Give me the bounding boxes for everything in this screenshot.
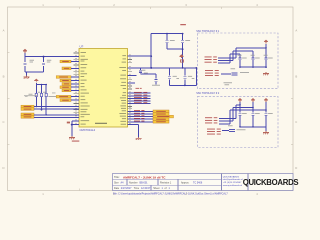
svg-text:Date: Date [114, 187, 120, 190]
svg-text:Time: Time [134, 187, 140, 190]
wires top-right cluster [128, 34, 197, 86]
power VDD symbol region 1 [264, 40, 268, 44]
sheet border frame with zone ticks [8, 7, 294, 191]
wire region 2 bottom rail [240, 126, 266, 128]
svg-text:QUICKBOARDS: QUICKBOARDS [223, 175, 240, 178]
net port red square [180, 60, 183, 62]
capacitor C? region 2 lower [229, 130, 235, 132]
svg-text:D: D [2, 166, 4, 170]
resistor R? pull-ups [35, 93, 47, 96]
capacitors region 2 trio [239, 113, 273, 127]
svg-text:AMRFCAL7 - JLINK 19 dil TC: AMRFCAL7 - JLINK 19 dil TC [123, 175, 166, 179]
svg-text:C: C [295, 120, 297, 124]
svg-text:A: A [3, 29, 5, 33]
svg-text:12:34:07: 12:34:07 [141, 187, 151, 190]
capacitor C? value text right [47, 59, 52, 62]
svg-text:SSC TOPOLOGY # 1: SSC TOPOLOGY # 1 [196, 30, 220, 33]
wire region 1 bottom rail [240, 66, 266, 68]
red net labels region 1 lower [205, 70, 231, 76]
wire pull-up verticals [36, 85, 46, 115]
IC U? bottom center gnd text [95, 122, 107, 125]
junction dot top rail capE [182, 33, 184, 35]
junction dot wire B at vertical 2 [182, 67, 184, 69]
junction dots region 2 [239, 104, 241, 106]
svg-text:CMX7041L4: CMX7041L4 [80, 128, 96, 132]
capacitor C? branch right [183, 77, 186, 79]
capacitor C? decoupling left [23, 63, 26, 65]
ground symbol bottom-left [69, 136, 75, 139]
capacitor C? mid cluster [155, 80, 158, 82]
sheet zone numbers and letters [2, 3, 297, 196]
junction dot wire B at vertical 1 [150, 67, 152, 69]
red net labels region 2 lower [207, 129, 229, 135]
IC U? internal pin name text [81, 52, 127, 125]
svg-text:Approx.: Approx. [181, 182, 190, 185]
power VDD symbol right of IC [179, 54, 183, 58]
junction dots pull-up rail [41, 84, 43, 86]
IC U? pin numbers [75, 51, 131, 124]
port label boxes far-left [21, 105, 34, 118]
red net labels region 2 [205, 117, 217, 123]
dashed box region 2 [198, 96, 279, 147]
svg-text:info@quickboards.nl: info@quickboards.nl [223, 178, 243, 181]
capacitor C? below wire B [139, 71, 142, 73]
svg-text:U?: U? [80, 45, 84, 49]
junction dot wire A vertical [150, 55, 152, 57]
net label Vdd red text top [180, 24, 186, 25]
designator text above ports [24, 94, 37, 97]
svg-text:A: A [295, 29, 297, 33]
svg-text:BB-001: BB-001 [140, 182, 149, 185]
svg-text:Revision 1: Revision 1 [160, 182, 172, 185]
junction dots region 1 [239, 66, 241, 68]
svg-text:C: C [2, 120, 4, 124]
red net labels region 1 [205, 57, 217, 63]
wires region 1 nested rails [218, 48, 266, 63]
title block frame [113, 174, 294, 191]
small blue text left of box [52, 92, 56, 95]
red net labels right of IC [128, 88, 151, 104]
capacitor C? above IC b [181, 41, 184, 43]
svg-text:TC 5406: TC 5406 [193, 182, 203, 185]
junction dot wire B end [195, 67, 197, 69]
junction dots pull-up to lines [36, 106, 38, 108]
IC U? pin stubs [74, 53, 133, 125]
capacitor C? above IC a [166, 41, 169, 43]
capacitor C? region 1 lower [232, 73, 238, 75]
capacitor C? decoupling right [42, 63, 45, 65]
wires region 2 nested rails [219, 105, 266, 124]
capacitors region 1 trio [238, 55, 273, 67]
svg-text:B: B [3, 74, 5, 78]
capacitor texts region 1 lower [231, 67, 236, 70]
svg-text:2/17/2017: 2/17/2017 [121, 187, 132, 190]
power VDD symbols region 2 [238, 98, 268, 113]
dashed box region 1 [198, 33, 279, 89]
ground net label text [72, 140, 80, 143]
wire port lines to IC [34, 107, 79, 118]
net label boxes left column [56, 60, 79, 101]
junction dot bottom-left [71, 124, 73, 126]
svg-text:File: C:\Users\quickboards\Pro: File: C:\Users\quickboards\Projects\AMRF… [113, 192, 228, 195]
svg-text:www.quickboards.nl: www.quickboards.nl [223, 184, 243, 187]
svg-text:B: B [295, 74, 297, 78]
ground symbol below decoupling pair [26, 72, 28, 75]
capacitor C? branch left [168, 77, 171, 79]
junction dot on VDD rail [43, 56, 45, 58]
svg-text:D: D [295, 166, 297, 170]
wire IC bottom-left to ground [72, 121, 79, 136]
svg-text:Sheet: Sheet [153, 187, 160, 190]
svg-text:of: of [165, 187, 167, 190]
ground symbol region 1 [263, 72, 269, 75]
junction dot cap pair rail [184, 84, 186, 86]
capacitor C? value text left [30, 59, 35, 62]
junction dot rail cap E [182, 48, 184, 50]
ground symbol bottom-right [136, 137, 142, 140]
net label boxes right of IC [128, 110, 174, 123]
power VDD symbol top-left [23, 49, 27, 53]
capacitor value region 2 lower [237, 128, 246, 131]
power VDD symbol for pull-ups [34, 79, 38, 83]
svg-text:SSC TOPOLOGY # 2: SSC TOPOLOGY # 2 [196, 92, 220, 95]
wire IC bottom-right to ground [128, 124, 139, 126]
svg-text:+31 (0)10 1234567: +31 (0)10 1234567 [223, 182, 242, 184]
op IC U? body [79, 49, 128, 128]
svg-text:Size: Size [114, 182, 119, 185]
port marker red small [67, 122, 70, 124]
svg-text:Title:: Title: [114, 175, 120, 179]
wire VDD rail and decoupling loop [25, 57, 79, 73]
svg-text:Number: Number [129, 182, 138, 185]
resistor value texts [29, 93, 33, 96]
svg-text:QUICKBOARDS: QUICKBOARDS [243, 178, 299, 187]
junction dot top rail capD [166, 33, 168, 35]
ground symbol region 2 [263, 131, 269, 134]
